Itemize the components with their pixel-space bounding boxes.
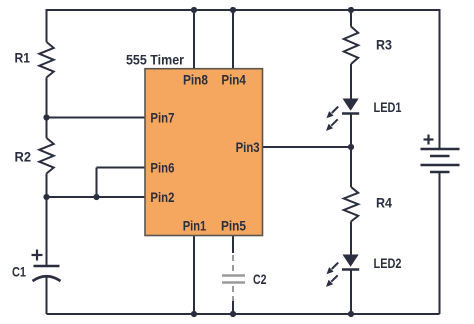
svg-text:R3: R3: [376, 37, 392, 53]
svg-text:R2: R2: [15, 149, 32, 165]
svg-text:C2: C2: [253, 271, 267, 287]
wire left rail upper: [46, 9, 48, 42]
capacitor C2 (dashed, gray): [222, 255, 245, 301]
svg-text:Pin7: Pin7: [150, 110, 174, 126]
node pin7/left: [43, 114, 49, 120]
node pin2/pin6: [93, 194, 99, 200]
wire pin6 branch: [96, 168, 98, 198]
node pin3/led: [348, 144, 354, 150]
wire right rail lower: [439, 172, 441, 314]
svg-text:LED2: LED2: [374, 255, 402, 271]
wire pin2: [47, 196, 146, 198]
wire pin5 solid top: [232, 236, 234, 254]
svg-text:Pin3: Pin3: [236, 139, 260, 155]
LED1: [343, 99, 359, 111]
node dots: [43, 7, 354, 317]
svg-text:Pin6: Pin6: [150, 160, 174, 176]
svg-text:555 Timer: 555 Timer: [126, 52, 184, 68]
LED1 arrow 1: [327, 107, 339, 119]
wire pin8 drop: [193, 10, 195, 69]
node top R3: [348, 7, 354, 13]
svg-text:Pin1: Pin1: [183, 217, 207, 233]
wire top rail: [47, 9, 440, 11]
wire pin3: [263, 146, 352, 148]
node top pin8: [191, 7, 197, 13]
node bottom led2: [348, 311, 354, 317]
wire R3 top lead: [350, 10, 352, 27]
node top pin4: [230, 7, 236, 13]
svg-text:Pin8: Pin8: [183, 72, 208, 88]
wire left rail R2 to C1: [46, 174, 48, 267]
wire pin7: [47, 117, 146, 119]
wire left rail R1 to R2: [46, 78, 48, 139]
capacitor C1: [33, 266, 61, 281]
svg-text:C1: C1: [12, 264, 26, 280]
battery B1: [421, 149, 460, 172]
wire left rail C1 to bottom: [46, 277, 48, 314]
wire pin5 solid bottom: [232, 300, 234, 314]
LED2 arrow 2: [326, 275, 338, 287]
node bottom pin1: [191, 311, 197, 317]
node pin2/left: [43, 194, 49, 200]
wire pin4 drop: [232, 10, 234, 69]
plus sign C1: [32, 250, 43, 261]
wire LED1 to node: [350, 114, 352, 148]
svg-text:Pin5: Pin5: [221, 217, 246, 233]
wire pin1 drop: [193, 236, 195, 315]
resistor R1: [39, 42, 53, 78]
wire R3 to LED1: [350, 64, 352, 99]
wire LED2 to bottom: [350, 270, 352, 314]
wire R4 to LED2: [350, 222, 352, 256]
svg-text:R1: R1: [15, 50, 31, 66]
wire node to R4: [350, 147, 352, 187]
wire right rail upper: [439, 9, 441, 149]
resistor R4: [344, 187, 358, 222]
svg-text:Pin2: Pin2: [150, 189, 174, 205]
LED2 arrow 1: [327, 263, 339, 275]
svg-text:LED1: LED1: [374, 99, 402, 115]
svg-text:Pin4: Pin4: [221, 72, 246, 88]
svg-text:R4: R4: [376, 195, 392, 211]
LED2: [343, 255, 359, 267]
IC U1 555 timer box: [145, 69, 263, 236]
plus sign battery: [424, 135, 434, 145]
node bottom pin5: [230, 311, 236, 317]
resistor R2: [39, 138, 53, 174]
wire bottom rail: [47, 313, 440, 315]
resistor R3: [344, 27, 358, 65]
wire pin6: [97, 167, 146, 169]
LED1 arrow 2: [326, 119, 338, 131]
